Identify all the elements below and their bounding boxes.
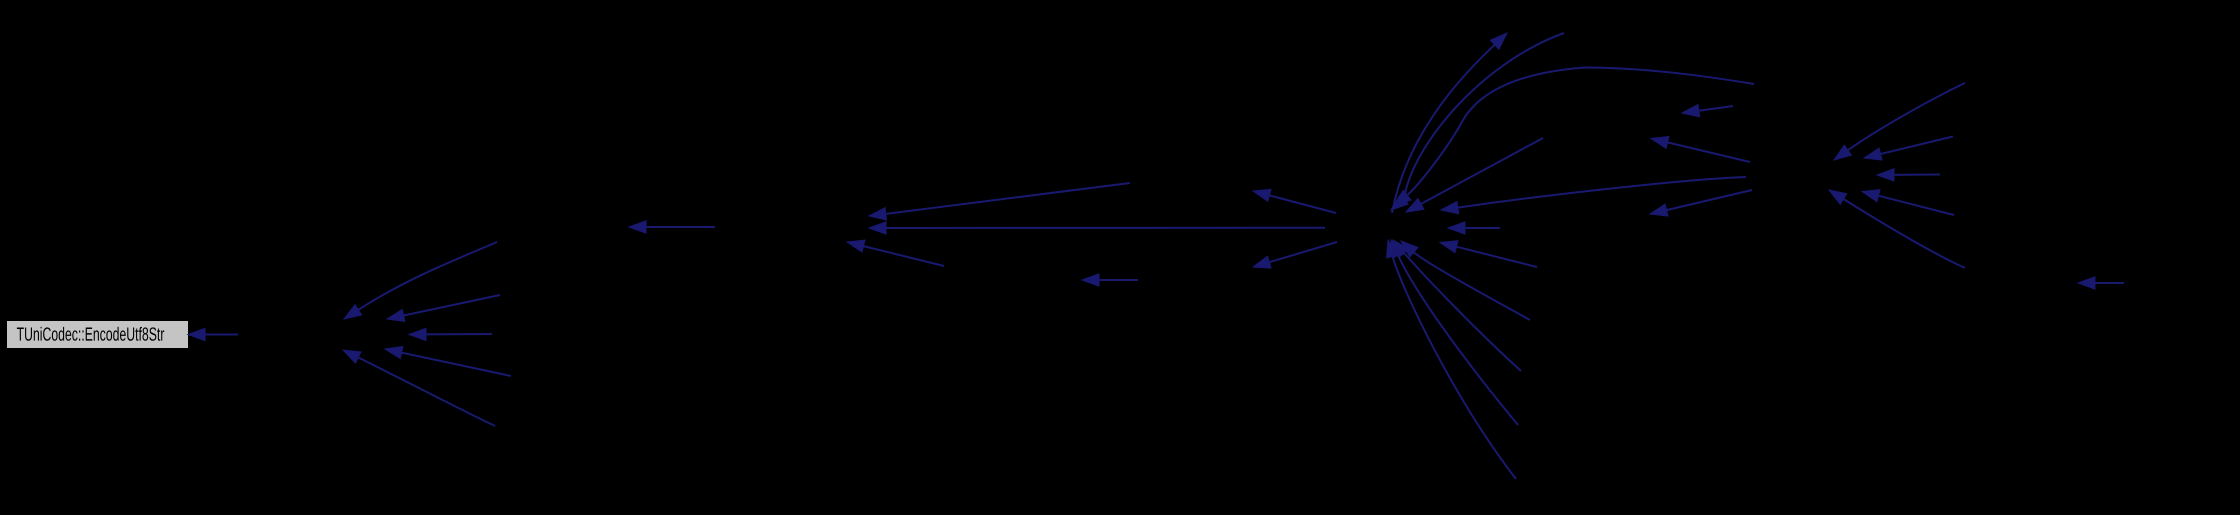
edge M2: [1465, 227, 1500, 229]
edge SC3: [1894, 174, 1940, 176]
label TUniCodec::EncodeUtf8Str: [17, 327, 164, 341]
edge SC4: [1879, 196, 1955, 215]
edge FAN3: [1398, 255, 1518, 425]
edge T2B: [1404, 33, 1564, 199]
edge F0: [1457, 247, 1538, 267]
edge B2T: [1392, 45, 1495, 213]
edge SC5: [1843, 199, 1965, 268]
edge D3: [864, 246, 945, 266]
edge D4: [1099, 279, 1138, 281]
edge E3: [1421, 138, 1543, 204]
edge FAN1: [1414, 252, 1530, 320]
edge SC1: [1848, 83, 1965, 150]
edge A1: [358, 242, 497, 310]
edge M1: [646, 226, 715, 228]
edge A2: [404, 295, 500, 316]
node TUniCodec::EncodeUtf8Str (grey box): [7, 321, 188, 348]
edge A3: [426, 333, 492, 335]
edge M4: [1699, 106, 1733, 111]
edge M0: [205, 334, 238, 336]
edge FAN4: [1393, 256, 1516, 479]
edge E4: [1458, 177, 1746, 208]
edge M5: [1668, 142, 1751, 162]
edge A5: [358, 358, 495, 427]
edge D2: [886, 227, 1325, 229]
edge A4: [402, 353, 511, 376]
edge ARC3: [1407, 68, 1754, 196]
edge M6: [1667, 190, 1753, 210]
edge E2: [1269, 242, 1337, 262]
edge M7: [2095, 282, 2124, 284]
edge E1: [1269, 195, 1336, 213]
edge D1: [886, 183, 1130, 214]
edge SC2: [1881, 137, 1954, 155]
edge FAN2: [1404, 253, 1521, 371]
